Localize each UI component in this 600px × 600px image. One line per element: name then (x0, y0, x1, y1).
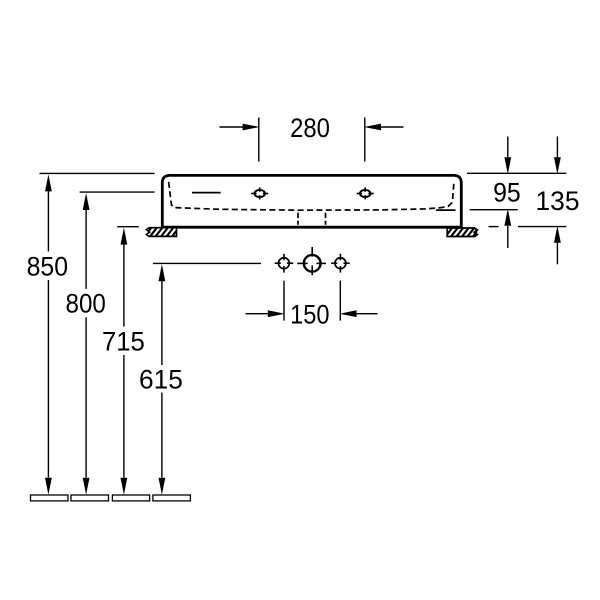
arrowhead up-pointing (135) (554, 226, 561, 243)
floor line segment 3 (112, 495, 149, 501)
arrowhead down-pointing (135) (554, 157, 561, 174)
extension line left (280) (258, 118, 260, 162)
dimension line right (280) (380, 126, 404, 128)
dimension line upper (615) (161, 279, 163, 365)
inner-depth pointer segment (inside basin) (436, 209, 456, 211)
arrowhead up-pointing (615) (159, 264, 166, 281)
extension line underside level short dash (135) (489, 226, 499, 228)
dimension 95 (rim to inner bottom) (467, 137, 566, 249)
dimension 850 (rim height over floor) (27, 173, 155, 494)
arrowhead left-pointing (280) (364, 124, 381, 131)
floor line segment 4 (153, 495, 191, 501)
arrowhead down-pointing (850) (45, 478, 52, 495)
value label 135 (536, 186, 580, 216)
svg-text:715: 715 (102, 326, 145, 357)
dimension line lower (715) (123, 355, 125, 478)
value label 800 (66, 289, 106, 319)
drain hole (297, 247, 326, 275)
arrowhead right-pointing (280) (243, 124, 260, 131)
arrowhead right-pointing (150) (268, 310, 285, 317)
arrowhead down-pointing (95) (504, 157, 511, 174)
dimension line above (135) (556, 137, 558, 159)
extension line faucet hole level (800) (80, 191, 155, 193)
dimension 135 (rim to basin underside) (489, 137, 580, 265)
drain recess hidden edge left (dashed) (297, 213, 299, 225)
left fixing hole (275, 254, 294, 273)
dimension line upper (715) (123, 243, 125, 327)
extension line top rim level (467, 172, 566, 174)
svg-text:615: 615 (139, 364, 183, 394)
svg-text:150: 150 (290, 300, 329, 330)
washbasin outer outline (162, 175, 461, 227)
svg-text:800: 800 (66, 289, 106, 319)
inner basin hidden edge (dashed) (169, 182, 454, 210)
faucet-height pointer segment (inside basin) (192, 192, 221, 194)
extension line underside level (135) (518, 226, 566, 228)
value label 150 (290, 300, 329, 330)
arrowhead down-pointing (800) (83, 478, 90, 495)
value label 850 (27, 253, 68, 282)
dimension 280 (faucet hole spacing) (220, 114, 404, 162)
arrowhead left-pointing (150) (340, 310, 357, 317)
dimension line lower (850) (47, 280, 49, 478)
dimension 715 (basin underside height over floor) (102, 227, 145, 495)
svg-text:850: 850 (27, 253, 68, 282)
arrowhead up-pointing (715) (121, 228, 128, 245)
dimension line above (95) (507, 137, 509, 158)
extension line right (280) (364, 118, 366, 162)
left wall bracket (141, 223, 188, 241)
value label 95 (493, 179, 521, 208)
arrowhead down-pointing (715) (121, 478, 128, 495)
right fixing hole (331, 254, 350, 273)
extension line underside level (715) (117, 226, 139, 228)
svg-text:95: 95 (493, 179, 521, 208)
left faucet hole (251, 187, 268, 199)
arrowhead up-pointing (800) (83, 193, 90, 210)
dimension line left (280) (220, 126, 245, 128)
dimension line lower (800) (85, 317, 87, 477)
dimension line right (150) (356, 313, 378, 315)
floor line segment 1 (31, 495, 69, 501)
dimension 150 (fixing hole spacing) (246, 281, 378, 330)
extension line rim level (850) (40, 172, 155, 174)
right wall bracket (442, 223, 484, 241)
value label 715 (102, 326, 145, 357)
extension line right (150) (339, 281, 341, 321)
dimension line upper (850) (47, 190, 49, 252)
dimension line below (95) (507, 226, 509, 248)
extension line inner bottom level (95) (470, 209, 518, 211)
dimension line upper (800) (85, 208, 87, 289)
value label 280 (290, 114, 330, 144)
arrowhead up-pointing (95) (504, 209, 511, 226)
svg-text:280: 280 (290, 114, 330, 144)
dimension line below (135) (556, 242, 558, 264)
extension line left (150) (283, 281, 285, 321)
arrowhead down-pointing (615) (159, 478, 166, 495)
floor line segment 2 (71, 495, 109, 501)
dimension 615 (drain height over floor) (139, 263, 261, 494)
dimension 800 (faucet hole height over floor) (66, 192, 155, 495)
right faucet hole (357, 187, 374, 199)
dimension line left (150) (246, 313, 270, 315)
value label 615 (139, 364, 183, 394)
arrowhead up-pointing (850) (45, 174, 52, 191)
svg-text:135: 135 (536, 186, 580, 216)
drain recess hidden edge right (dashed) (325, 213, 327, 225)
extension line drain level (615) (153, 262, 261, 264)
dimension line lower (615) (161, 393, 163, 478)
